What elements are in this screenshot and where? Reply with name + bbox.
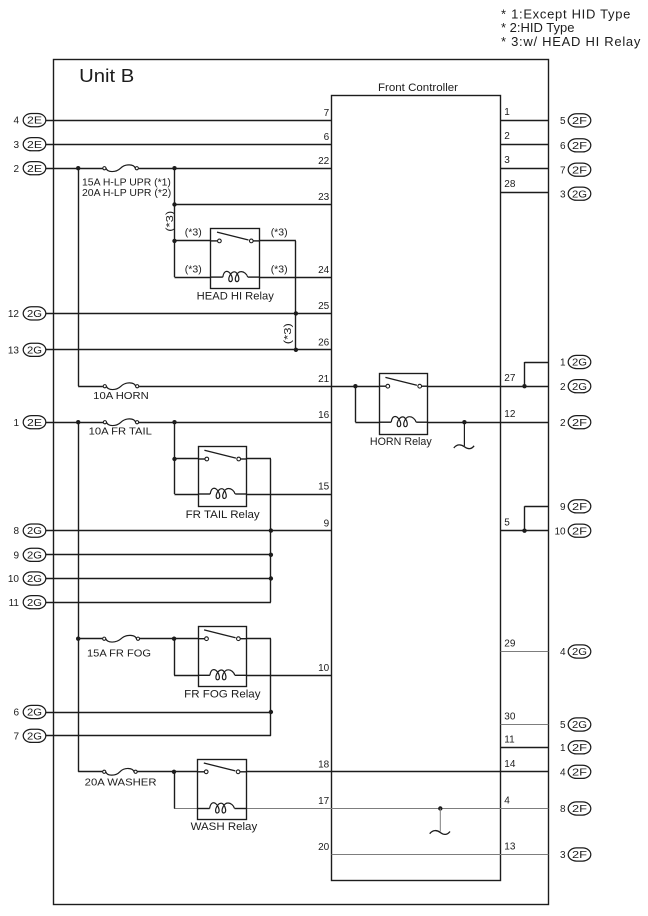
svg-text:2F: 2F — [572, 141, 587, 152]
svg-text:2G: 2G — [27, 309, 42, 320]
svg-text:3: 3 — [504, 155, 510, 166]
svg-text:* 3:w/ HEAD HI Relay: * 3:w/ HEAD HI Relay — [501, 34, 641, 49]
svg-text:2F: 2F — [572, 804, 587, 815]
svg-text:1: 1 — [504, 107, 510, 118]
svg-text:10: 10 — [554, 526, 566, 537]
wire vertical FR FOG coil branch — [174, 639, 176, 676]
relay FR TAIL (U3): box — [199, 447, 247, 507]
wire 6(2G) to node — [46, 712, 271, 714]
svg-text:2: 2 — [560, 418, 566, 429]
svg-text:4: 4 — [13, 116, 19, 127]
svg-text:Unit B: Unit B — [79, 66, 134, 86]
svg-text:16: 16 — [318, 410, 330, 421]
connector 13 (2G) left — [23, 343, 46, 356]
svg-text:20A WASHER: 20A WASHER — [85, 777, 157, 789]
wire pin 21 to HORN relay switch — [332, 386, 380, 388]
svg-text:4: 4 — [504, 796, 510, 807]
relay HORN (U2): coil — [391, 416, 416, 426]
relay FR TAIL (U3): coil stubs — [198, 493, 210, 495]
junction FR FOG fuse out — [172, 637, 176, 641]
junction 2(2E) feed — [76, 166, 80, 170]
junction HORN ground — [462, 420, 466, 424]
wire pin 1 to 5(2F) — [501, 120, 549, 122]
connector 6 (2G) left — [23, 705, 46, 718]
wire pin 5 to 10(2F) — [501, 530, 549, 532]
svg-text:15A FR FOG: 15A FR FOG — [87, 647, 151, 659]
relay HORN (U2): contact stubs — [379, 385, 386, 387]
svg-text:30: 30 — [504, 712, 516, 723]
junction HEAD HI switch feed — [172, 239, 176, 243]
connector 2 (2E) left — [23, 162, 46, 175]
wire vertical WASH coil branch — [174, 772, 176, 809]
connector 5 (2G) right — [568, 718, 591, 731]
connector 6 (2F) right — [568, 139, 591, 152]
svg-text:2: 2 — [504, 131, 510, 142]
connector 1 (2E) left — [23, 416, 46, 429]
svg-text:7: 7 — [13, 731, 19, 742]
relay FR FOG (U4): box — [199, 627, 247, 687]
wire 12(2G) to pin 25 — [46, 313, 332, 315]
svg-text:2G: 2G — [572, 189, 587, 200]
svg-text:13: 13 — [8, 345, 20, 356]
wire fuse 20A WASHER to WASH relay — [138, 771, 198, 773]
svg-text:1: 1 — [13, 418, 19, 429]
junction FR TAIL switch feed — [172, 457, 176, 461]
svg-text:2: 2 — [13, 164, 19, 175]
fuse 10A FR TAIL — [103, 419, 138, 426]
wire 4(2E) to pin 7 — [46, 120, 332, 122]
svg-text:2F: 2F — [572, 767, 587, 778]
wire pin 17 to pin 4 to 8(2F) (gray) — [235, 808, 549, 810]
svg-text:9: 9 — [324, 518, 330, 529]
svg-text:2G: 2G — [27, 345, 42, 356]
relay HEAD HI (U1): switch blade — [217, 232, 249, 240]
wire node to FR TAIL relay coil — [175, 494, 199, 496]
svg-text:24: 24 — [318, 265, 330, 276]
svg-text:2F: 2F — [572, 743, 587, 754]
svg-text:15: 15 — [318, 482, 330, 493]
svg-text:23: 23 — [318, 192, 330, 203]
svg-text:6: 6 — [324, 132, 330, 143]
connector 5 (2F) right — [568, 114, 591, 127]
relay HORN (U2): switch blade — [385, 377, 417, 385]
wire WASH relay switch to pin 18 / pin 14 to 4(2F) — [246, 771, 548, 773]
svg-text:25: 25 — [318, 301, 330, 312]
junction pin 4 ground — [438, 806, 442, 810]
svg-text:28: 28 — [504, 179, 516, 190]
junction HORN relay feed — [353, 384, 357, 388]
svg-text:7: 7 — [560, 165, 566, 176]
wire FR FOG relay coil to pin 10 — [247, 675, 332, 677]
wire 9(2G) to node — [46, 554, 271, 556]
wire vertical FR TAIL branch — [174, 422, 176, 494]
relay HORN (U2): switch contacts — [386, 384, 390, 388]
wire fuse 10A FR TAIL to pin 16 — [139, 422, 332, 424]
svg-text:9: 9 — [560, 502, 566, 513]
relay WASH (U5): switch contacts — [204, 770, 208, 774]
svg-text:29: 29 — [504, 639, 516, 650]
junction 9(2G) line — [269, 553, 273, 557]
wire 10(2G) to node — [46, 578, 271, 580]
wire node to pin 23 — [175, 204, 332, 206]
svg-text:17: 17 — [318, 796, 330, 807]
svg-text:6: 6 — [560, 141, 566, 152]
junction 2(2G) branch — [522, 384, 526, 388]
connector 4 (2E) left — [23, 114, 46, 127]
wire FR TAIL relay switch out — [247, 458, 271, 460]
wire 1(2E) to fuse 10A FR TAIL — [46, 422, 103, 424]
wire HORN relay switch to pin 27 to 2(2G) — [428, 386, 549, 388]
svg-text:6: 6 — [13, 708, 19, 719]
wire pin 11 to 1(2F) — [501, 747, 549, 749]
connector 8 (2F) right — [568, 802, 591, 815]
connector 7 (2F) right — [568, 163, 591, 176]
svg-text:2G: 2G — [27, 526, 42, 537]
wire vertical feed from 1(2E) — [78, 422, 80, 772]
svg-text:2G: 2G — [572, 358, 587, 369]
relay HEAD HI (U1): coil stubs — [211, 276, 223, 278]
connector 2 (2F) right — [568, 416, 591, 429]
svg-text:2G: 2G — [27, 598, 42, 609]
svg-text:12: 12 — [8, 309, 20, 320]
wire WASH relay coil (gray) — [174, 808, 210, 810]
svg-text:20: 20 — [318, 842, 330, 853]
svg-text:(*3): (*3) — [282, 323, 294, 344]
relay FR FOG (U4): coil stubs — [198, 674, 210, 676]
junction FR TAIL fuse out — [172, 420, 176, 424]
wire node to FR FOG relay coil — [174, 675, 198, 677]
wire vert to fuse 10A HORN — [78, 386, 103, 388]
wire FR FOG relay switch out — [247, 638, 271, 640]
svg-text:(*3): (*3) — [185, 263, 202, 275]
wire 13(2G) to pin 26 — [46, 349, 332, 351]
wire 7(2G) to node — [46, 735, 271, 737]
connector 4 (2F) right — [568, 765, 591, 778]
svg-text:10A HORN: 10A HORN — [93, 390, 149, 402]
svg-text:10A FR TAIL: 10A FR TAIL — [89, 425, 152, 437]
connector 7 (2G) left — [23, 729, 46, 742]
relay HORN (U2): coil stubs — [379, 421, 391, 423]
ground near HORN relay — [463, 422, 465, 446]
wire vert to fuse 20A WASHER — [78, 771, 102, 773]
relay FR TAIL (U3): switch contacts — [205, 457, 209, 461]
svg-text:2E: 2E — [27, 164, 42, 175]
wire FR TAIL relay coil to pin 15 — [247, 494, 332, 496]
svg-text:13: 13 — [504, 842, 516, 853]
svg-text:2: 2 — [560, 382, 566, 393]
wire vertical feed from 2(2E) — [78, 168, 80, 386]
svg-text:2F: 2F — [572, 850, 587, 861]
relay HEAD HI (U1): coil — [223, 271, 248, 281]
junction FR FOG feed — [76, 637, 80, 641]
connector 9 (2G) left — [23, 548, 46, 561]
connector 3 (2E) left — [23, 138, 46, 151]
fuse 15A FR FOG — [103, 635, 140, 642]
svg-text:2F: 2F — [572, 502, 587, 513]
connector 8 (2G) left — [23, 524, 46, 537]
junction 8(2G) line — [269, 528, 273, 532]
wire pin 3 to 7(2F) — [501, 168, 549, 170]
connector 10 (2F) right — [568, 524, 591, 537]
fuse 15A/20A H-LP UPR — [103, 165, 139, 172]
relay FR TAIL (U3): switch blade — [204, 450, 236, 458]
relay FR FOG (U4): switch contacts — [205, 637, 209, 641]
junction 10(2F) branch — [522, 529, 526, 533]
svg-text:3: 3 — [560, 189, 566, 200]
wire fuse 10A HORN to pin 21 — [139, 386, 331, 388]
svg-text:5: 5 — [560, 720, 566, 731]
svg-text:10: 10 — [318, 663, 330, 674]
svg-text:FR FOG Relay: FR FOG Relay — [184, 689, 261, 701]
junction WASH fuse out — [172, 770, 176, 774]
relay HEAD HI (U1): switch contacts — [218, 239, 222, 243]
svg-text:(*3): (*3) — [185, 227, 202, 239]
svg-text:5: 5 — [560, 116, 566, 127]
wire vertical H-LP UPR branch — [174, 168, 176, 277]
svg-text:14: 14 — [504, 759, 516, 770]
relay HEAD HI (U1): box — [211, 229, 260, 289]
svg-text:12: 12 — [504, 409, 516, 420]
connector 2 (2G) right — [568, 380, 591, 393]
svg-text:FR TAIL Relay: FR TAIL Relay — [186, 509, 261, 521]
wire pin 28 to 3(2G) — [501, 192, 549, 194]
relay WASH (U5): switch blade — [204, 763, 236, 771]
wire vertical branch 1(2G) — [524, 362, 526, 386]
svg-text:(*3): (*3) — [164, 211, 176, 232]
wire node to HEAD HI relay switch — [175, 240, 212, 242]
junction pin 26 line — [294, 348, 298, 352]
connector 11 (2G) left — [23, 596, 46, 609]
relay FR FOG (U4): coil — [210, 670, 235, 680]
relay HEAD HI (U1): contact stubs — [211, 240, 218, 242]
connector 1 (2G) right — [568, 355, 591, 368]
relay FR TAIL (U3): coil — [210, 488, 235, 498]
connector 3 (2F) right — [568, 848, 591, 861]
svg-text:2G: 2G — [27, 731, 42, 742]
Unit B box — [54, 60, 549, 905]
svg-text:2G: 2G — [572, 647, 587, 658]
svg-text:3: 3 — [13, 140, 19, 151]
connector 4 (2G) right — [568, 645, 591, 658]
fuse 10A HORN — [103, 383, 139, 390]
svg-text:2G: 2G — [27, 708, 42, 719]
wire node to FR TAIL relay switch — [175, 458, 199, 460]
wire pin 30 to 5(2G) (gray) — [501, 724, 549, 726]
svg-text:5: 5 — [504, 518, 510, 529]
svg-text:27: 27 — [504, 373, 516, 384]
svg-text:10: 10 — [8, 574, 20, 585]
relay FR FOG (U4): contact stubs — [198, 638, 205, 640]
relay WASH (U5): contact stubs — [198, 771, 205, 773]
wire branch to 9(2F) — [525, 506, 549, 508]
junction 6(2G) line — [269, 710, 273, 714]
svg-text:2E: 2E — [27, 418, 42, 429]
wire node to HEAD HI relay coil — [175, 277, 212, 279]
svg-text:9: 9 — [13, 550, 19, 561]
svg-text:2F: 2F — [572, 165, 587, 176]
svg-text:1: 1 — [560, 743, 566, 754]
junction fuse H-LP UPR out — [172, 166, 176, 170]
wire vertical FR FOG switch out — [270, 639, 272, 736]
relay WASH (U5): box — [198, 760, 247, 820]
wire HEAD HI relay switch out — [260, 240, 296, 242]
ground on pin 4 line — [439, 809, 441, 832]
wire fuse 15A FR FOG to FR FOG relay — [140, 638, 198, 640]
relay WASH (U5): coil — [210, 803, 235, 813]
wire HORN relay coil to pin 12 to 2(2F) — [428, 422, 549, 424]
svg-text:Front Controller: Front Controller — [378, 82, 458, 94]
relay FR FOG (U4): switch blade — [204, 630, 236, 638]
svg-text:1: 1 — [560, 358, 566, 369]
wire vert to fuse 15A FR FOG — [78, 638, 102, 640]
wire vertical FR TAIL switch out — [270, 459, 272, 602]
connector 1 (2F) right — [568, 741, 591, 754]
svg-text:2G: 2G — [572, 382, 587, 393]
svg-text:4: 4 — [560, 647, 566, 658]
wire vertical branch 9(2F) — [524, 506, 526, 530]
wire node to HORN relay coil — [355, 422, 379, 424]
svg-text:2F: 2F — [572, 116, 587, 127]
svg-text:26: 26 — [318, 338, 330, 349]
svg-text:HEAD HI Relay: HEAD HI Relay — [197, 291, 275, 303]
svg-text:11: 11 — [9, 598, 20, 609]
svg-text:2E: 2E — [27, 116, 42, 127]
svg-text:20A H-LP UPR (*2): 20A H-LP UPR (*2) — [82, 187, 171, 199]
junction 10(2G) line — [269, 576, 273, 580]
junction pin 23 branch — [172, 202, 176, 206]
junction pin 25 line — [294, 311, 298, 315]
svg-text:HORN Relay: HORN Relay — [370, 436, 432, 448]
connector 12 (2G) left — [23, 307, 46, 320]
svg-text:WASH Relay: WASH Relay — [191, 821, 258, 833]
svg-text:22: 22 — [318, 156, 330, 167]
junction 1(2E) feed — [76, 420, 80, 424]
svg-text:8: 8 — [560, 804, 566, 815]
connector 3 (2G) right — [568, 187, 591, 200]
svg-text:11: 11 — [504, 734, 515, 745]
relay HORN (U2): box — [380, 374, 428, 435]
wire fuse H-LP UPR to pin 22 — [139, 168, 332, 170]
wire vertical HORN relay feed — [355, 386, 357, 422]
connector 9 (2F) right — [568, 500, 591, 513]
relay FR TAIL (U3): contact stubs — [198, 458, 205, 460]
svg-text:2E: 2E — [27, 140, 42, 151]
svg-text:2F: 2F — [572, 526, 587, 537]
relay WASH (U5): coil stubs — [198, 808, 210, 810]
fuse 20A WASHER — [103, 768, 138, 775]
svg-text:2G: 2G — [572, 720, 587, 731]
svg-text:(*3): (*3) — [271, 263, 288, 275]
wire HEAD HI relay coil to pin 24 — [260, 277, 332, 279]
svg-text:18: 18 — [318, 760, 330, 771]
wire pin 29 to 4(2G) (gray) — [501, 651, 549, 653]
wire vertical HEAD HI switch out — [295, 241, 297, 350]
wire 11(2G) to node — [46, 602, 271, 604]
svg-text:7: 7 — [324, 108, 330, 119]
connector 10 (2G) left — [23, 572, 46, 585]
svg-text:3: 3 — [560, 850, 566, 861]
svg-text:4: 4 — [560, 767, 566, 778]
wire pin 20 to pin 13 to 3(2F) (gray) — [332, 854, 549, 856]
wire 2(2E) to fuse H-LP UPR — [46, 168, 103, 170]
svg-text:21: 21 — [318, 374, 330, 385]
wire 8(2G) to pin 9 — [46, 530, 332, 532]
wire 3(2E) to pin 6 — [46, 144, 332, 146]
wire pin 2 to 6(2F) — [501, 144, 549, 146]
svg-text:2G: 2G — [27, 574, 42, 585]
svg-text:8: 8 — [13, 526, 19, 537]
svg-text:2F: 2F — [572, 418, 587, 429]
svg-text:2G: 2G — [27, 550, 42, 561]
Front Controller box — [332, 96, 501, 881]
svg-text:(*3): (*3) — [271, 227, 288, 239]
wire branch to 1(2G) — [525, 362, 549, 364]
